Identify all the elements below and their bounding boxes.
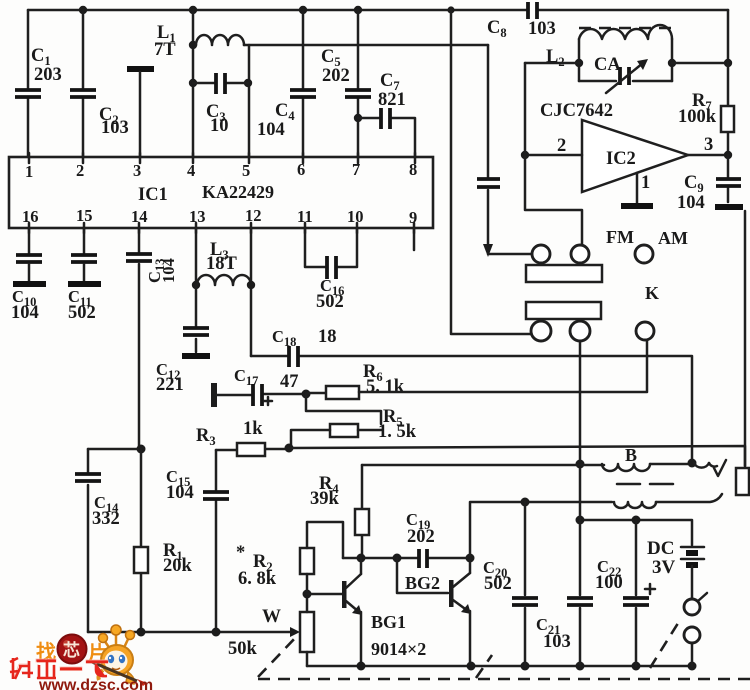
watermark logo zhaoxinpian — [36, 635, 108, 666]
capacitor C22 100 electrolytic — [595, 520, 655, 666]
svg-text:502: 502 — [68, 303, 96, 323]
svg-text:502: 502 — [316, 292, 344, 312]
node CA left junction — [575, 59, 583, 67]
capacitor C5 202 — [321, 10, 371, 157]
svg-text:103: 103 — [528, 19, 556, 39]
IC1 pin numbers 16-9 (bottom row) — [22, 206, 417, 227]
capacitor C17 47 electrolytic — [211, 366, 304, 407]
svg-text:12: 12 — [245, 206, 262, 225]
capacitor C10 104 — [11, 228, 46, 323]
op-amp IC1 KA22429 body — [9, 157, 433, 228]
wire L1 output line to FM switch — [244, 44, 488, 47]
wire IC1 pin 5 column — [244, 45, 252, 157]
svg-text:5. 1k: 5. 1k — [366, 377, 405, 397]
wire tank right lead to R7 column — [672, 62, 728, 65]
svg-text:B: B — [625, 445, 637, 465]
label AM — [658, 228, 688, 248]
wire bottom dashed chassis line — [258, 678, 750, 681]
wire dashed gang link mid — [476, 655, 492, 678]
svg-text:202: 202 — [407, 527, 435, 547]
node CA right junction — [668, 59, 676, 67]
IC1 pin stubs top edge — [29, 153, 415, 163]
wire transformer B secondary line — [470, 498, 612, 559]
band switch K lower contacts — [531, 321, 590, 341]
transformer B secondary winding — [614, 494, 722, 508]
capacitor C20 502 — [483, 502, 538, 666]
wire emitter ground rail — [307, 662, 697, 671]
potentiometer W 50k — [228, 594, 314, 666]
node top rail junction dots — [79, 6, 455, 14]
IC1 pin stubs bottom edge — [29, 223, 414, 233]
svg-text:CJC7642: CJC7642 — [540, 101, 613, 121]
svg-text:www.dzsc.com: www.dzsc.com — [38, 677, 153, 690]
capacitor C13 104 (series, rotated label) — [126, 228, 178, 449]
capacitor C18 18 (series) — [272, 327, 337, 367]
dashed transformer core — [617, 483, 673, 486]
antenna stub on IC1 pin 3 — [127, 69, 154, 157]
wire AM line from top rail down to band switch — [451, 10, 531, 334]
svg-text:104: 104 — [11, 303, 39, 323]
inductor L1 7T — [154, 23, 244, 60]
node BG1 base node — [303, 590, 312, 599]
capacitor C16 502 — [305, 228, 357, 312]
svg-text:4: 4 — [187, 161, 195, 180]
wire BG1 collector node row — [343, 554, 470, 563]
svg-text:202: 202 — [322, 66, 350, 86]
watermark mascot — [92, 625, 147, 686]
svg-text:2: 2 — [557, 136, 566, 156]
capacitor C1 203 — [15, 10, 62, 157]
IC1 pin numbers 1-8 (top row) — [25, 160, 417, 181]
svg-text:6: 6 — [297, 160, 305, 179]
svg-text:332: 332 — [92, 509, 120, 529]
capacitor C11 502 — [68, 228, 101, 323]
resistor R1 20k — [134, 449, 193, 632]
svg-text:5: 5 — [242, 161, 250, 180]
label FM — [606, 227, 634, 247]
node BG2 collector node — [466, 554, 475, 563]
capacitor C9 104 — [677, 155, 743, 213]
transformer B primary winding — [362, 445, 726, 476]
svg-text:104: 104 — [159, 258, 178, 283]
svg-text:7: 7 — [352, 160, 360, 179]
earphone jack — [736, 468, 749, 495]
svg-text:10: 10 — [210, 116, 229, 136]
node IC1 pin7/C7 junction — [354, 114, 362, 122]
svg-text:BG1: BG1 — [371, 612, 406, 632]
capacitor C2 103 — [70, 10, 129, 157]
resistor R3 1k — [196, 419, 287, 456]
svg-text:100k: 100k — [678, 107, 717, 127]
svg-text:1. 5k: 1. 5k — [378, 422, 417, 442]
switch power on/off — [684, 593, 707, 666]
svg-text:1: 1 — [25, 162, 33, 181]
ground IC2 pin 1 — [621, 173, 653, 206]
capacitor C7 821 — [358, 71, 415, 157]
variable capacitor CA — [579, 55, 672, 93]
wire AM IF line (pin 12 to transformer B) — [251, 356, 692, 463]
capacitor C19 202 — [406, 510, 435, 568]
svg-text:1: 1 — [641, 173, 650, 193]
svg-text:39k: 39k — [310, 489, 340, 509]
resistor R6 5.1k — [306, 362, 405, 399]
watermark weiku text — [10, 658, 108, 679]
svg-text:1k: 1k — [243, 419, 263, 439]
svg-text:W: W — [262, 606, 281, 627]
wire oscillator feed down to switch — [525, 63, 582, 245]
svg-text:203: 203 — [34, 65, 62, 85]
svg-text:IC1: IC1 — [138, 185, 168, 205]
svg-text:K: K — [645, 283, 659, 303]
wire FM IF column (switch to C21) — [576, 341, 585, 666]
svg-text:6. 8k: 6. 8k — [238, 569, 277, 589]
wire C14 to C13 link — [88, 445, 146, 454]
svg-text:FM: FM — [606, 227, 634, 247]
capacitor C14 332 — [75, 449, 120, 632]
switch K contact — [636, 283, 659, 340]
wire switched B+ line — [576, 516, 693, 546]
wire IC1 pin 9 stub — [413, 228, 416, 250]
wire top supply rail — [28, 9, 728, 12]
svg-text:2: 2 — [76, 161, 84, 180]
svg-text:50k: 50k — [228, 639, 258, 659]
wire dashed gang link at switch — [650, 620, 680, 668]
svg-text:103: 103 — [543, 632, 571, 652]
battery DC 3V — [647, 538, 704, 599]
svg-text:104: 104 — [166, 483, 194, 503]
svg-text:9014×2: 9014×2 — [371, 639, 426, 659]
svg-text:3: 3 — [133, 161, 141, 180]
inductor L2 (oscillator tank) — [546, 25, 672, 81]
svg-text:18T: 18T — [206, 254, 238, 274]
svg-text:821: 821 — [378, 90, 406, 110]
wire FM line down from L1 line — [487, 45, 490, 246]
svg-text:KA22429: KA22429 — [202, 182, 274, 202]
svg-text:CA: CA — [594, 55, 621, 75]
resistor R5 1.5k — [291, 407, 417, 446]
node C17/R6 junction — [302, 390, 311, 399]
svg-text:AM: AM — [658, 228, 688, 248]
wire right edge output line — [744, 211, 747, 466]
wire IC1 pin 13 column — [192, 228, 200, 289]
svg-text:IC2: IC2 — [606, 149, 636, 169]
svg-text:47: 47 — [280, 372, 299, 392]
wire jog C17 node down — [306, 394, 381, 424]
band switch K upper contacts — [532, 245, 589, 263]
svg-text:104: 104 — [257, 120, 285, 140]
capacitor C12 221 with ground — [156, 285, 210, 395]
capacitor C4 104 — [257, 10, 316, 157]
wire IC1 pin 4 column — [189, 10, 197, 157]
svg-text:221: 221 — [156, 375, 184, 395]
resistor R7 100k — [678, 63, 734, 155]
svg-text:104: 104 — [677, 193, 705, 213]
resistor R4 39k — [310, 465, 369, 558]
wire IC2 pin 2 input — [521, 136, 582, 159]
wire tank left lead — [525, 62, 579, 65]
wire top rail right corner down — [724, 10, 732, 67]
svg-text:10: 10 — [347, 207, 364, 226]
wire long AGC line to right edge — [289, 446, 745, 466]
transistor BG2 — [405, 558, 471, 666]
svg-text:20k: 20k — [163, 556, 193, 576]
svg-text:103: 103 — [101, 118, 129, 138]
node R3/R5 junction — [285, 444, 294, 453]
svg-text:芯: 芯 — [63, 640, 80, 660]
capacitor C3 10 — [193, 73, 248, 136]
wire volume feed line with wiper arrow — [88, 627, 300, 637]
watermark www.dzsc.com — [38, 677, 153, 690]
svg-text:100: 100 — [595, 573, 623, 593]
svg-text:502: 502 — [484, 574, 512, 594]
svg-text:7T: 7T — [154, 40, 176, 60]
op-amp IC2 CJC7642 — [540, 101, 688, 192]
dashed trimmer link above CA — [579, 27, 676, 30]
resistor R2 6.8k feedback — [236, 522, 343, 594]
wire IC1 pin 12 column — [247, 228, 255, 356]
svg-text:DC: DC — [647, 538, 674, 559]
band switch K slider bars — [526, 265, 602, 319]
svg-text:8: 8 — [409, 160, 417, 179]
wire BG2 base jog — [397, 558, 448, 593]
wire dashed gang link at W — [258, 636, 297, 677]
svg-text:*: * — [236, 543, 245, 563]
capacitor C21 103 — [536, 598, 593, 652]
wire IC2 pin 3 output — [688, 135, 732, 159]
transistor BG1 9014 — [307, 558, 426, 666]
svg-text:18: 18 — [318, 327, 337, 347]
capacitor C8 103 (series in top rail) — [487, 2, 556, 40]
svg-text:3V: 3V — [652, 557, 676, 578]
capacitor C6 (unlabeled, series in FM line) — [477, 179, 500, 187]
node AM open contact — [635, 245, 653, 263]
wire R6 to switch contact K — [359, 340, 647, 392]
wire arrow into FM switch contact — [483, 244, 531, 257]
inductor L3 18T — [197, 240, 251, 285]
capacitor C15 104 — [166, 450, 229, 632]
svg-text:BG2: BG2 — [405, 573, 440, 593]
svg-text:3: 3 — [704, 135, 713, 155]
